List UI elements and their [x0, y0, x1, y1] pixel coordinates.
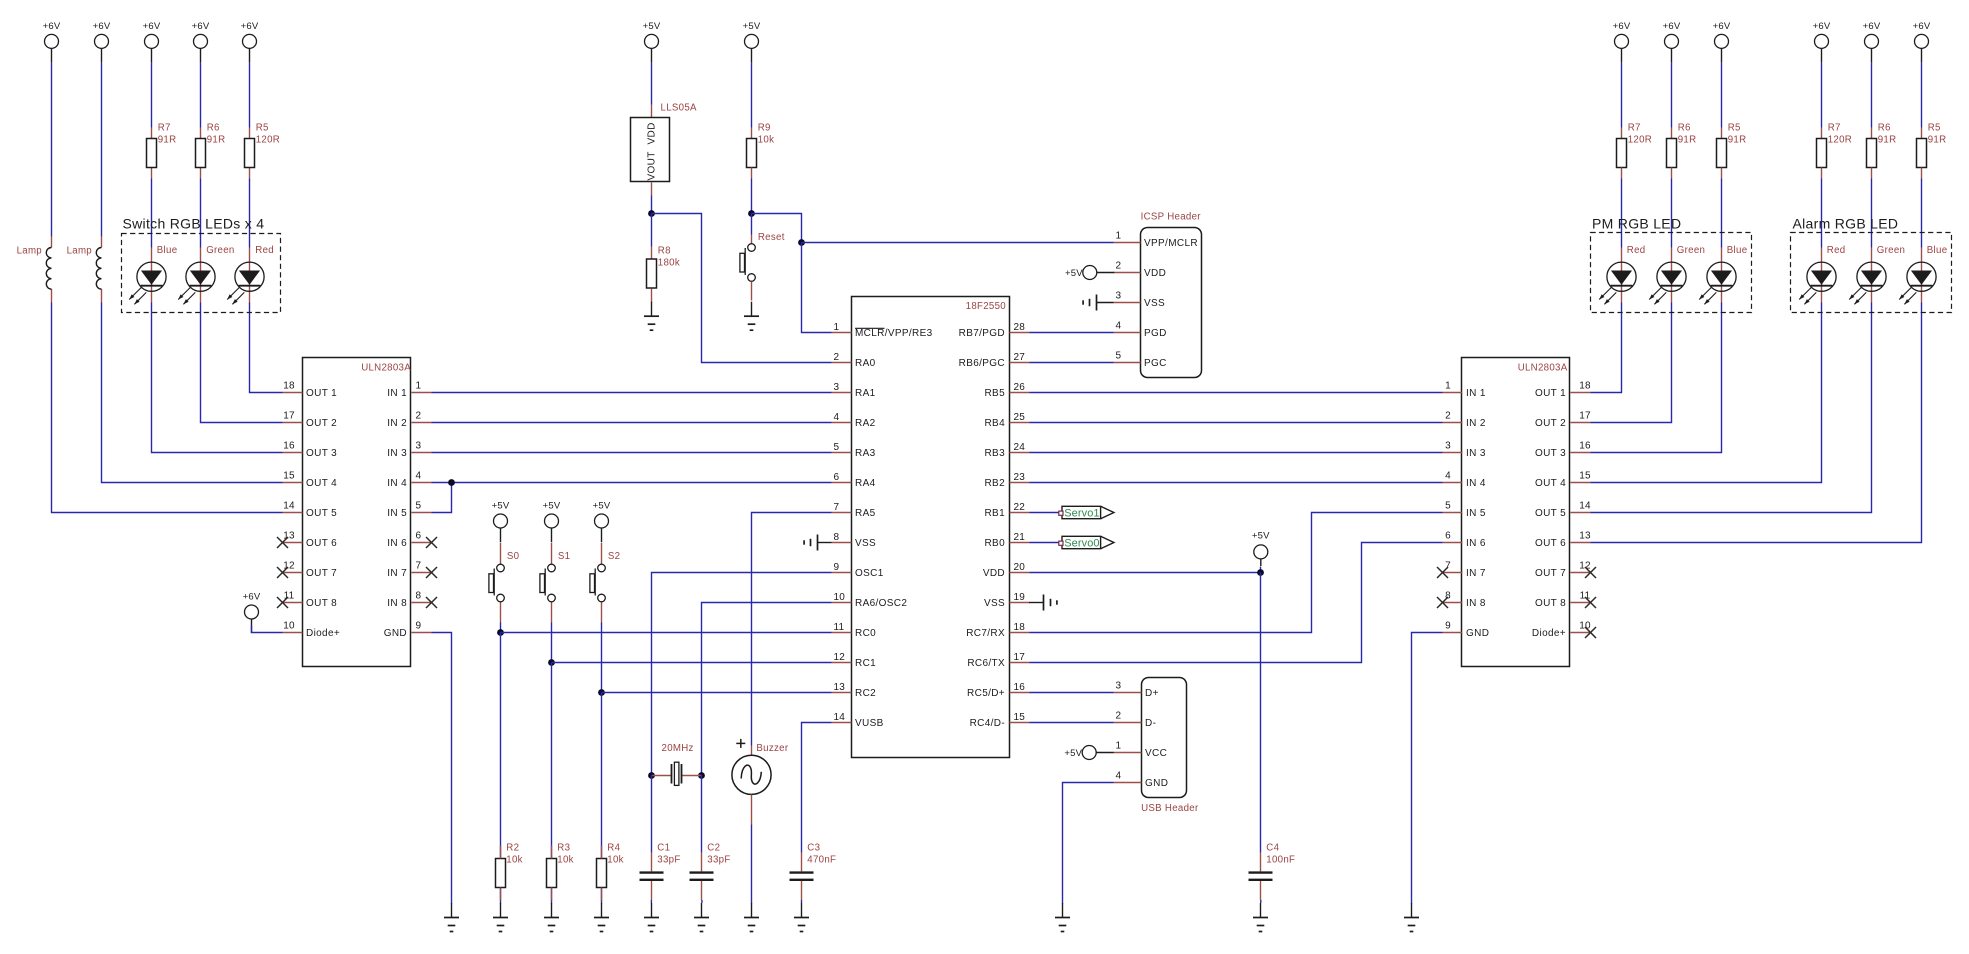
power +5V at S1	[543, 501, 561, 543]
wire VUSB to C3	[802, 723, 832, 853]
power +6V terminal 3 (left)	[143, 21, 161, 63]
svg-text:R3: R3	[557, 842, 570, 853]
svg-text:RB0: RB0	[984, 538, 1005, 549]
svg-text:IN 5: IN 5	[387, 508, 407, 519]
svg-text:C1: C1	[657, 842, 670, 853]
svg-text:R6: R6	[1678, 123, 1691, 134]
junction crystal left	[648, 772, 655, 779]
svg-text:RB6/PGC: RB6/PGC	[959, 358, 1005, 369]
U3 MCLR overbar	[855, 327, 885, 329]
svg-text:OUT 8: OUT 8	[306, 598, 337, 609]
U1 pin 6 IN 6 stub	[412, 542, 432, 544]
no-connect X on U4 IN 7	[1437, 567, 1448, 578]
LLS05A VDD pin	[651, 105, 653, 119]
svg-text:IN 1: IN 1	[387, 388, 407, 399]
U4 pin 13 OUT 6 stub	[1571, 542, 1591, 544]
svg-text:24: 24	[1014, 442, 1026, 453]
ICSP VSS lead	[1097, 302, 1114, 304]
U3 pin 11 RC0 stub	[832, 632, 852, 634]
IC U1 ULN2803A body	[303, 358, 411, 667]
U1 pin 5 IN 5 stub	[412, 512, 432, 514]
svg-text:10: 10	[283, 621, 295, 632]
C2 ground lead	[701, 900, 703, 903]
buzzer - pin	[751, 795, 753, 825]
svg-text:R5: R5	[1928, 123, 1941, 134]
svg-text:91R: 91R	[1728, 134, 1747, 145]
wire U1 GND down	[432, 633, 452, 904]
resistor R5 91R (right 6)	[1917, 123, 1947, 168]
power +6V terminal 3 (right)	[1713, 21, 1731, 63]
S0 bottom pin	[500, 603, 502, 623]
svg-text:6: 6	[416, 531, 422, 542]
U3 pin 20 VDD stub	[1010, 572, 1030, 574]
junction crystal right	[698, 772, 705, 779]
R4 bottom pin	[601, 888, 603, 901]
U4 pin 7 IN 7 stub	[1443, 572, 1463, 574]
svg-text:+5V: +5V	[492, 501, 510, 512]
U3 pin 14 VUSB stub	[832, 722, 852, 724]
svg-text:Blue: Blue	[1927, 245, 1948, 256]
resistor bottom pin	[1671, 168, 1673, 179]
svg-text:IN 8: IN 8	[1466, 598, 1486, 609]
svg-text:R7: R7	[1828, 123, 1841, 134]
wire +6V to resistor	[151, 63, 153, 128]
wire RB1 to Servo1	[1030, 512, 1060, 514]
U1 pin 9 GND stub	[412, 632, 432, 634]
svg-text:+6V: +6V	[241, 21, 259, 32]
wire buzzer to ground	[751, 825, 753, 904]
svg-text:OUT 7: OUT 7	[306, 568, 337, 579]
svg-text:4: 4	[1445, 471, 1451, 482]
wire LED to U4 OUT1	[1591, 303, 1622, 393]
wire U1 IN2 to PIC RA2	[432, 422, 832, 424]
U4 pin 18 OUT 1 stub	[1571, 392, 1591, 394]
svg-text:10: 10	[834, 592, 846, 603]
U3 pin 15 RC4/D- stub	[1010, 722, 1030, 724]
svg-text:Buzzer: Buzzer	[756, 743, 788, 754]
wire +5V to R9	[751, 63, 753, 128]
ground below Reset	[744, 302, 759, 331]
junction VDD/C4	[1257, 569, 1264, 576]
resistor top pin	[200, 128, 202, 139]
svg-text:ULN2803A: ULN2803A	[361, 363, 411, 374]
power +6V terminal 2 (left)	[93, 21, 111, 63]
U1 pin 14 OUT 5 stub	[283, 512, 303, 514]
svg-text:+6V: +6V	[1613, 21, 1631, 32]
IC U3 PIC 18F2550 body	[852, 297, 1010, 758]
connector ICSP header body	[1141, 228, 1202, 378]
svg-text:8: 8	[416, 591, 422, 602]
svg-text:GND: GND	[1145, 778, 1168, 789]
lamp LAMP1	[17, 236, 52, 303]
svg-text:IN 3: IN 3	[1466, 448, 1486, 459]
wire USB GND down	[1063, 783, 1114, 904]
wire RB4 to U4 IN2	[1030, 422, 1443, 424]
svg-text:1: 1	[1116, 741, 1122, 752]
svg-text:8: 8	[834, 532, 840, 543]
U3 pin 4 RA2 stub	[832, 422, 852, 424]
svg-text:OUT 6: OUT 6	[306, 538, 337, 549]
U1 pin 16 OUT 3 stub	[283, 452, 303, 454]
R2 top pin	[500, 846, 502, 859]
svg-text:Reset: Reset	[758, 232, 785, 243]
resistor bottom pin	[1871, 168, 1873, 179]
U1 pin 17 OUT 2 stub	[283, 422, 303, 424]
wire lamp2 to ULN1 OUT4	[102, 303, 283, 483]
U4 pin 14 OUT 5 stub	[1571, 512, 1591, 514]
resistor top pin	[1671, 128, 1673, 139]
svg-text:C4: C4	[1266, 842, 1279, 853]
wire LED to U4 OUT3	[1591, 303, 1722, 453]
LED green (switch)	[178, 248, 215, 305]
power +6V terminal 2 (right)	[1663, 21, 1681, 63]
svg-text:12: 12	[1579, 561, 1591, 572]
svg-text:IN 6: IN 6	[1466, 538, 1486, 549]
U1 pin 12 OUT 7 stub	[283, 572, 303, 574]
svg-text:Lamp: Lamp	[67, 246, 92, 257]
no-connect X on U4 OUT 8	[1585, 597, 1596, 608]
svg-text:ULN2803A: ULN2803A	[1518, 363, 1568, 374]
svg-text:17: 17	[283, 411, 295, 422]
wire LED to ULN1 output	[250, 303, 283, 393]
wire +6V to resistor	[1671, 63, 1673, 128]
svg-text:+6V: +6V	[192, 21, 210, 32]
wire LED to U4 OUT2	[1591, 303, 1672, 423]
wire U1 IN1 to PIC RA1	[432, 392, 832, 394]
wire OSC2 to crystal	[702, 603, 832, 776]
U4 pin 5 IN 5 stub	[1443, 512, 1463, 514]
svg-text:+6V: +6V	[243, 592, 261, 603]
ICSP pin 4 PGD stub	[1114, 332, 1141, 334]
power +6V terminal 6 (right)	[1913, 21, 1931, 63]
resistor R7 120R (right 4)	[1817, 123, 1853, 168]
R3 bottom pin	[551, 888, 553, 901]
wire resistor to LED	[1621, 179, 1623, 248]
wire R9 to reset node	[751, 179, 753, 214]
wire RC7/RX to U4 IN5	[1030, 513, 1443, 633]
wire RB5 to U4 IN1	[1030, 392, 1443, 394]
U3 pin 1 MCLR/VPP/RE3 stub	[832, 332, 852, 334]
resistor R7 120R (right 1)	[1617, 123, 1653, 168]
resistor top pin	[151, 128, 153, 139]
capacitor C1 33pF	[640, 842, 681, 900]
U4 pin 1 IN 1 stub	[1443, 392, 1463, 394]
svg-text:OUT 7: OUT 7	[1535, 568, 1566, 579]
svg-text:5: 5	[834, 442, 840, 453]
svg-text:17: 17	[1014, 652, 1026, 663]
power +6V terminal 1 (left)	[43, 21, 61, 63]
wire resistor to LED	[1671, 179, 1673, 248]
svg-text:R5: R5	[256, 123, 269, 134]
svg-text:7: 7	[416, 561, 422, 572]
resistor top pin	[1871, 128, 1873, 139]
dashed box Alarm RGB LED frame	[1791, 233, 1952, 313]
USB pin 2 D- stub	[1114, 722, 1142, 724]
svg-text:OUT 4: OUT 4	[1535, 478, 1566, 489]
svg-text:R9: R9	[758, 123, 771, 134]
wire RC1 to S1	[552, 662, 832, 664]
svg-text:PGD: PGD	[1144, 328, 1167, 339]
U3 pin 6 RA4 stub	[832, 482, 852, 484]
svg-text:91R: 91R	[158, 134, 177, 145]
svg-text:120R: 120R	[1828, 134, 1852, 145]
svg-text:4: 4	[1116, 321, 1122, 332]
no-connect X on U1 IN 8	[426, 597, 437, 608]
wire resistor to LED	[151, 179, 153, 248]
power +6V terminal 1 (right)	[1613, 21, 1631, 63]
svg-text:VDD: VDD	[983, 568, 1005, 579]
svg-text:R7: R7	[1628, 123, 1641, 134]
svg-text:18: 18	[283, 381, 295, 392]
wire +6V to resistor	[1721, 63, 1723, 128]
svg-text:RA4: RA4	[855, 478, 876, 489]
wire LED to ULN1 output	[201, 303, 283, 423]
U1 pin 1 IN 1 stub	[412, 392, 432, 394]
svg-text:9: 9	[834, 562, 840, 573]
power +5V at R9	[743, 21, 761, 63]
svg-text:Green: Green	[1877, 245, 1905, 256]
wire reset node to MCLR net	[752, 214, 802, 243]
wire resistor to LED	[1871, 179, 1873, 248]
resistor top pin	[1921, 128, 1923, 139]
U3 pin 18 RC7/RX stub	[1010, 632, 1030, 634]
U1 pin 8 IN 8 stub	[412, 602, 432, 604]
LED Red	[1799, 248, 1836, 305]
svg-text:+5V: +5V	[1252, 531, 1270, 542]
resistor top pin	[1721, 128, 1723, 139]
svg-text:3: 3	[1445, 441, 1451, 452]
IC U4 ULN2803A body	[1462, 358, 1570, 667]
ground at U1 GND	[444, 903, 459, 932]
svg-text:16: 16	[1014, 682, 1026, 693]
svg-text:14: 14	[283, 501, 295, 512]
power +6V terminal 5 (right)	[1863, 21, 1881, 63]
svg-text:13: 13	[834, 682, 846, 693]
U1 pin 10 Diode+ stub	[283, 632, 303, 634]
R4 top pin	[601, 846, 603, 859]
svg-text:MCLR/VPP/RE3: MCLR/VPP/RE3	[855, 328, 933, 339]
svg-text:D+: D+	[1145, 688, 1159, 699]
S2 bottom pin	[601, 603, 603, 623]
wire S0 node down to ground	[500, 633, 502, 904]
svg-text:23: 23	[1014, 472, 1026, 483]
U1 pin 4 IN 4 stub	[412, 482, 432, 484]
wire LED to ULN1 output	[152, 303, 283, 453]
wire node to reset switch	[751, 214, 753, 235]
U3 pin 23 RB2 stub	[1010, 482, 1030, 484]
U3 pin 5 RA3 stub	[832, 452, 852, 454]
resistor bottom pin	[1621, 168, 1623, 179]
svg-text:OUT 3: OUT 3	[1535, 448, 1566, 459]
U4 pin 9 GND stub	[1443, 632, 1463, 634]
wire S1 node down to ground	[551, 663, 553, 904]
svg-text:470nF: 470nF	[807, 854, 836, 865]
pushbutton Reset	[740, 232, 785, 281]
wire resistor to LED	[1921, 179, 1923, 248]
S1 top pin	[551, 543, 553, 565]
svg-text:PGC: PGC	[1144, 358, 1167, 369]
svg-text:C3: C3	[807, 842, 820, 853]
U4 pin 11 OUT 8 stub	[1571, 602, 1591, 604]
svg-text:1: 1	[1116, 231, 1122, 242]
svg-text:3: 3	[416, 441, 422, 452]
wire lamp1 top	[51, 63, 53, 237]
svg-text:12: 12	[834, 652, 846, 663]
svg-text:IN 2: IN 2	[1466, 418, 1486, 429]
S2 top pin	[601, 543, 603, 565]
svg-text:19: 19	[1014, 592, 1026, 603]
wire S0 to net	[500, 623, 502, 633]
svg-text:R6: R6	[1878, 123, 1891, 134]
wire S2 node down to ground	[601, 693, 603, 904]
U4 pin 2 IN 2 stub	[1443, 422, 1463, 424]
svg-text:7: 7	[834, 502, 840, 513]
ICSP pin 2 VDD stub	[1114, 272, 1141, 274]
LED Blue	[1899, 248, 1936, 305]
svg-text:Red: Red	[255, 245, 274, 256]
svg-text:+5V: +5V	[743, 21, 761, 32]
svg-text:RB7/PGD: RB7/PGD	[959, 328, 1005, 339]
wire U4 GND down	[1412, 633, 1443, 904]
U3 pin 22 RB1 stub	[1010, 512, 1030, 514]
svg-text:Diode+: Diode+	[1532, 628, 1566, 639]
svg-text:ICSP Header: ICSP Header	[1141, 212, 1202, 223]
U3 pin 12 RC1 stub	[832, 662, 852, 664]
U3 pin 28 RB7/PGD stub	[1010, 332, 1030, 334]
svg-text:+6V: +6V	[43, 21, 61, 32]
U3 pin 25 RB4 stub	[1010, 422, 1030, 424]
ground below S2	[594, 903, 609, 932]
ICSP pin 3 VSS stub	[1114, 302, 1141, 304]
svg-text:21: 21	[1014, 532, 1026, 543]
voltage reference U2 LLS05A body	[631, 118, 670, 182]
no-connect X on U1 OUT 8	[277, 597, 288, 608]
svg-text:10: 10	[1579, 621, 1591, 632]
svg-text:RA2: RA2	[855, 418, 876, 429]
S1 bottom pin	[551, 603, 553, 623]
power +5V at S2	[593, 501, 611, 543]
C4 ground lead	[1260, 900, 1262, 903]
svg-text:18: 18	[1579, 381, 1591, 392]
resistor bottom pin	[1921, 168, 1923, 179]
svg-text:Green: Green	[1677, 245, 1705, 256]
resistor R6 91R (left)	[196, 123, 226, 168]
wire +6V to resistor	[1821, 63, 1823, 128]
LED Blue	[1699, 248, 1736, 305]
connector USB header body	[1142, 678, 1187, 798]
svg-text:+6V: +6V	[1863, 21, 1881, 32]
U3 VSS pin 19 lead	[1029, 602, 1044, 604]
svg-text:14: 14	[834, 712, 846, 723]
svg-text:RC5/D+: RC5/D+	[967, 688, 1005, 699]
net label Servo1	[1059, 506, 1114, 519]
wire resistor to LED	[200, 179, 202, 248]
ground at ICSP VSS	[1083, 295, 1096, 311]
svg-text:6: 6	[1445, 531, 1451, 542]
svg-text:Red: Red	[1627, 245, 1646, 256]
crystal left pin	[652, 775, 672, 777]
svg-text:Blue: Blue	[1727, 245, 1748, 256]
svg-text:Diode+: Diode+	[306, 628, 340, 639]
svg-text:20: 20	[1014, 562, 1026, 573]
U1 pin 15 OUT 4 stub	[283, 482, 303, 484]
svg-text:3: 3	[1116, 291, 1122, 302]
svg-text:R2: R2	[506, 842, 519, 853]
U1 pin 7 IN 7 stub	[412, 572, 432, 574]
svg-text:+6V: +6V	[143, 21, 161, 32]
capacitor C2 33pF	[690, 842, 731, 900]
C3 ground lead	[801, 900, 803, 903]
svg-text:2: 2	[1445, 411, 1451, 422]
svg-text:IN 8: IN 8	[387, 598, 407, 609]
svg-text:LLS05A: LLS05A	[661, 103, 698, 114]
svg-text:+5V: +5V	[1065, 268, 1083, 279]
buzzer SG1	[732, 739, 789, 795]
wire U1 IN4 to PIC RA4	[432, 482, 832, 484]
svg-text:IN 4: IN 4	[1466, 478, 1486, 489]
svg-text:OUT 5: OUT 5	[1535, 508, 1566, 519]
dashed box PM RGB LED frame	[1591, 233, 1752, 313]
wire U1 IN5 tie to IN4	[432, 483, 452, 513]
svg-text:S0: S0	[507, 551, 520, 562]
ground below C4	[1253, 903, 1268, 932]
wire MCLR net to ICSP VPP	[802, 242, 1114, 244]
U1 pin 13 OUT 6 stub	[283, 542, 303, 544]
svg-text:RB3: RB3	[984, 448, 1005, 459]
svg-text:VOUT: VOUT	[647, 151, 658, 180]
U4 pin 6 IN 6 stub	[1443, 542, 1463, 544]
junction S0 node	[497, 629, 504, 636]
wire OSC1 to crystal	[652, 573, 832, 776]
resistor bottom pin	[1721, 168, 1723, 179]
wire lamp2 top	[101, 63, 103, 237]
svg-text:C2: C2	[707, 842, 720, 853]
svg-text:IN 2: IN 2	[387, 418, 407, 429]
svg-text:VUSB: VUSB	[855, 718, 884, 729]
wire crystal to C1	[651, 776, 653, 853]
pushbutton S2	[590, 551, 620, 602]
no-connect X on U1 IN 6	[426, 537, 437, 548]
svg-text:R5: R5	[1728, 123, 1741, 134]
svg-text:5: 5	[1116, 351, 1122, 362]
svg-text:Alarm RGB LED: Alarm RGB LED	[1793, 216, 1899, 232]
ICSP pin 1 VPP/MCLR stub	[1114, 242, 1141, 244]
wire RB7/PGD to ICSP PGD	[1030, 332, 1114, 334]
resistor R6 91R (right 5)	[1867, 123, 1897, 168]
crystal Q1 20MHz	[662, 743, 694, 785]
resistor bottom pin	[151, 168, 153, 179]
svg-text:S2: S2	[608, 551, 620, 562]
U3 pin 13 RC2 stub	[832, 692, 852, 694]
svg-text:GND: GND	[1466, 628, 1489, 639]
svg-text:OUT 2: OUT 2	[306, 418, 337, 429]
wire +5V to LLS05A	[651, 63, 653, 105]
resistor R7 91R (left)	[147, 123, 177, 168]
junction S1 node	[548, 659, 555, 666]
wire S2 to net	[601, 623, 603, 693]
R3 top pin	[551, 846, 553, 859]
svg-text:IN 3: IN 3	[387, 448, 407, 459]
R8 bottom pin	[651, 289, 653, 303]
svg-text:RC6/TX: RC6/TX	[967, 658, 1005, 669]
svg-text:+5V: +5V	[1064, 748, 1082, 759]
resistor bottom pin	[200, 168, 202, 179]
svg-text:91R: 91R	[207, 134, 226, 145]
svg-text:OUT 6: OUT 6	[1535, 538, 1566, 549]
svg-text:GND: GND	[384, 628, 407, 639]
wire RC0 to S0	[501, 632, 832, 634]
svg-text:5: 5	[416, 501, 422, 512]
